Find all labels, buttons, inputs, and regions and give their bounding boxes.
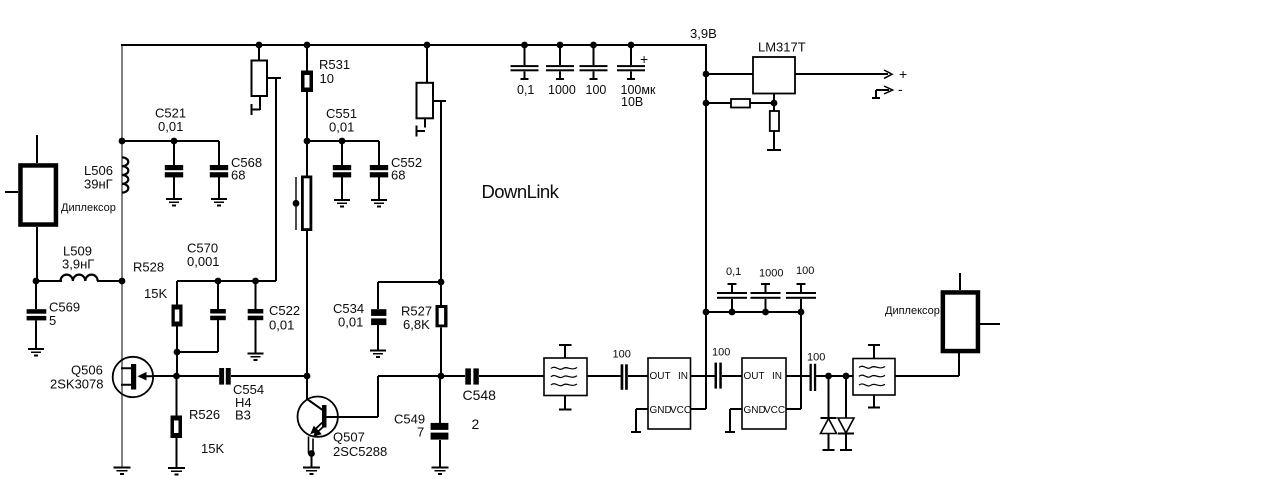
- svg-text:39нГ: 39нГ: [84, 177, 113, 192]
- svg-text:R531: R531: [319, 57, 350, 72]
- svg-text:R528: R528: [133, 260, 164, 275]
- svg-text:-: -: [898, 81, 903, 97]
- svg-text:3,9В: 3,9В: [690, 26, 717, 41]
- svg-text:0,01: 0,01: [338, 315, 363, 330]
- svg-text:100: 100: [807, 352, 825, 364]
- svg-text:68: 68: [391, 168, 405, 183]
- svg-text:Диплексор: Диплексор: [61, 202, 116, 214]
- svg-text:10: 10: [320, 71, 334, 86]
- svg-text:0,01: 0,01: [329, 120, 354, 135]
- svg-text:1000: 1000: [548, 83, 576, 97]
- svg-text:0,1: 0,1: [517, 83, 534, 97]
- svg-text:0,1: 0,1: [726, 266, 741, 278]
- svg-text:15K: 15K: [144, 286, 167, 301]
- svg-text:3,9нГ: 3,9нГ: [62, 257, 94, 272]
- svg-text:VCC: VCC: [764, 405, 785, 416]
- svg-text:Q506: Q506: [71, 363, 103, 378]
- svg-text:100: 100: [796, 265, 814, 277]
- svg-text:100: 100: [613, 349, 631, 361]
- svg-text:+: +: [899, 66, 907, 82]
- svg-text:2SC5288: 2SC5288: [333, 444, 387, 459]
- svg-text:5: 5: [49, 313, 56, 328]
- svg-text:GND: GND: [744, 405, 766, 416]
- svg-text:R526: R526: [189, 407, 220, 422]
- svg-text:Диплексор: Диплексор: [885, 305, 940, 317]
- svg-text:DownLink: DownLink: [482, 181, 560, 202]
- svg-text:2: 2: [472, 416, 480, 432]
- svg-text:IN: IN: [772, 371, 782, 382]
- svg-text:C548: C548: [463, 387, 497, 403]
- svg-text:LM317T: LM317T: [758, 40, 806, 55]
- svg-text:1000: 1000: [759, 268, 783, 280]
- svg-text:10В: 10В: [621, 95, 643, 109]
- svg-text:2SK3078: 2SK3078: [50, 377, 104, 392]
- svg-text:0,01: 0,01: [269, 318, 294, 333]
- svg-text:68: 68: [231, 168, 245, 183]
- svg-text:6,8K: 6,8K: [403, 317, 430, 332]
- svg-text:OUT: OUT: [650, 371, 671, 382]
- svg-text:0,001: 0,001: [187, 254, 220, 269]
- svg-text:C522: C522: [269, 303, 300, 318]
- svg-text:GND: GND: [650, 405, 672, 416]
- svg-text:OUT: OUT: [744, 371, 765, 382]
- svg-text:+: +: [640, 51, 648, 67]
- svg-text:Q507: Q507: [333, 430, 365, 445]
- svg-text:IN: IN: [678, 371, 688, 382]
- svg-text:B3: B3: [235, 408, 251, 423]
- svg-text:100: 100: [712, 347, 730, 359]
- svg-text:VCC: VCC: [670, 405, 691, 416]
- svg-text:100: 100: [586, 83, 607, 97]
- svg-text:7: 7: [417, 425, 424, 440]
- svg-text:15K: 15K: [201, 441, 224, 456]
- svg-text:0,01: 0,01: [158, 119, 183, 134]
